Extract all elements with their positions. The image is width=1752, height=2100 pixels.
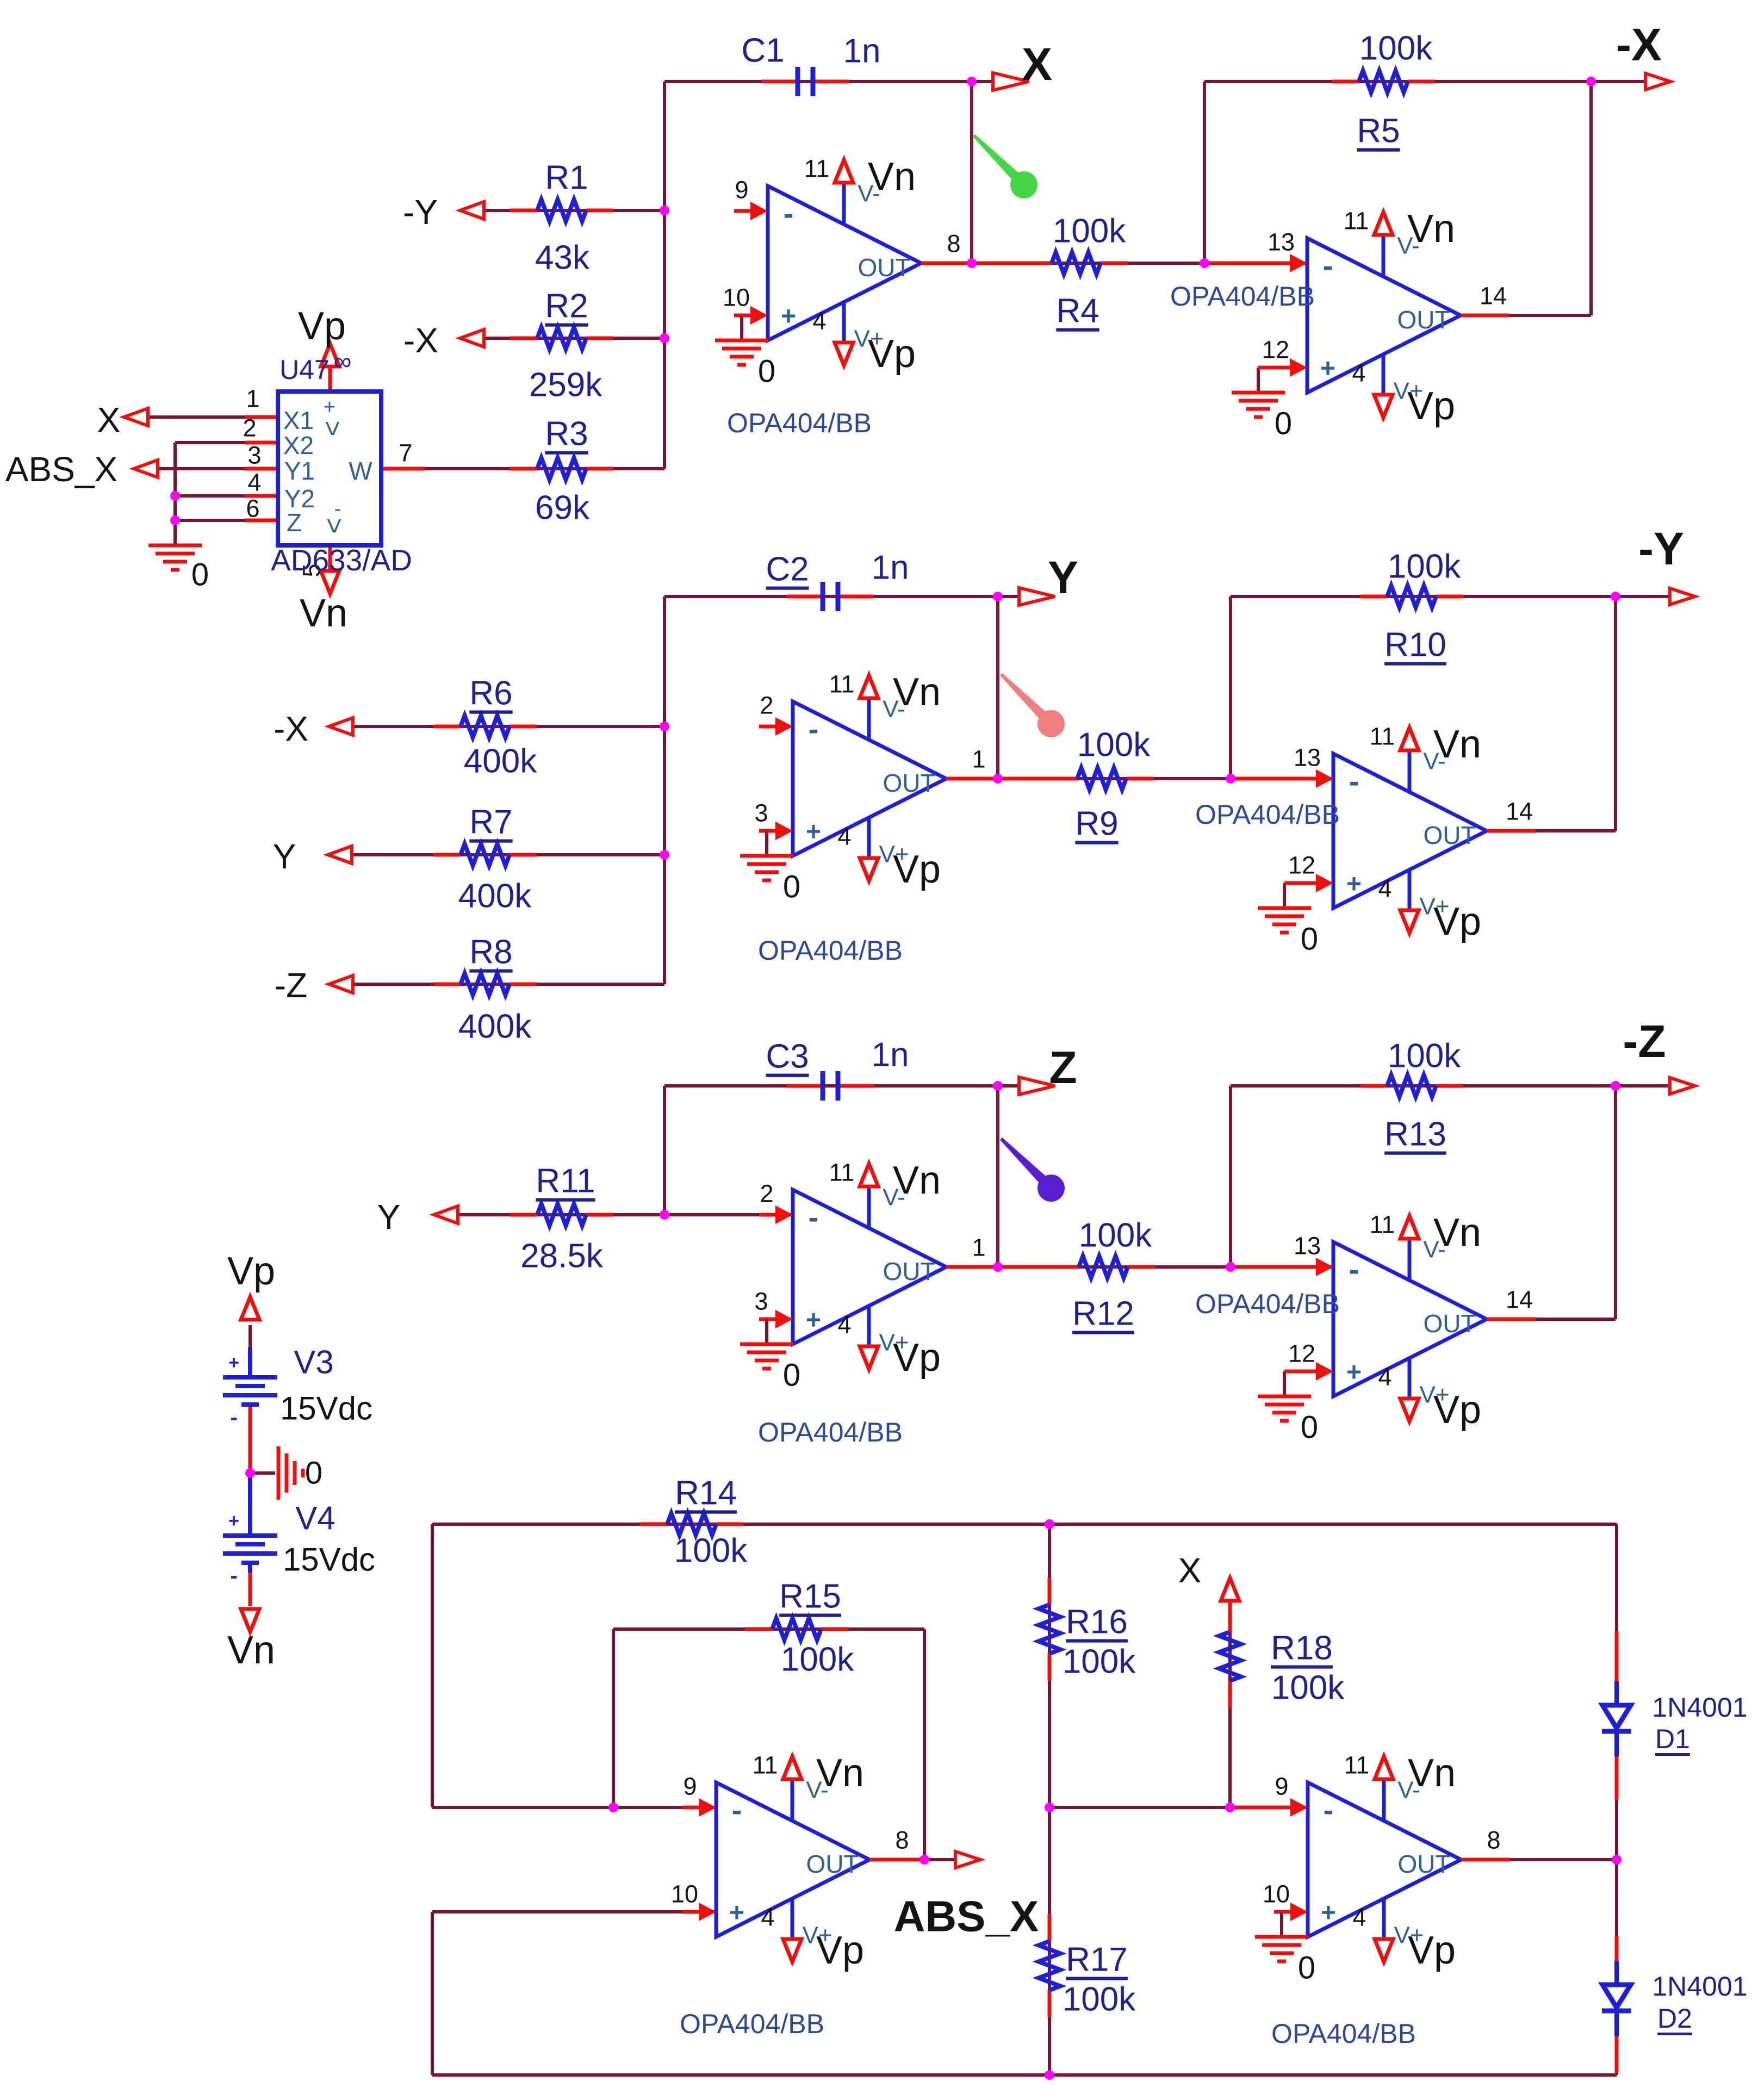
svg-text:15Vdc: 15Vdc: [283, 1542, 375, 1578]
svg-text:V+: V+: [854, 326, 884, 352]
svg-text:R10: R10: [1384, 626, 1446, 664]
svg-text:28.5k: 28.5k: [520, 1238, 604, 1275]
svg-text:-Z: -Z: [1623, 1016, 1666, 1067]
svg-text:-: -: [1349, 764, 1359, 798]
svg-text:Y1: Y1: [284, 457, 315, 485]
svg-text:>: >: [319, 518, 350, 533]
svg-text:>: >: [318, 420, 348, 436]
svg-text:ABS_X: ABS_X: [894, 1892, 1039, 1941]
svg-text:100k: 100k: [1063, 1643, 1136, 1681]
svg-text:12: 12: [1262, 336, 1289, 364]
svg-text:V-: V-: [883, 1184, 905, 1211]
svg-text:OUT: OUT: [883, 769, 935, 797]
svg-text:15Vdc: 15Vdc: [280, 1390, 372, 1427]
svg-text:R16: R16: [1066, 1604, 1128, 1641]
svg-text:3: 3: [247, 442, 261, 469]
svg-text:X1: X1: [283, 406, 314, 434]
svg-text:11: 11: [804, 155, 830, 183]
svg-text:-Z: -Z: [275, 966, 307, 1005]
svg-text:OPA404/BB: OPA404/BB: [1170, 281, 1315, 312]
svg-text:R15: R15: [779, 1578, 841, 1616]
svg-text:259k: 259k: [529, 366, 602, 404]
svg-text:-: -: [809, 1200, 819, 1234]
svg-text:12: 12: [1288, 1340, 1315, 1368]
svg-text:+: +: [1320, 355, 1335, 383]
svg-text:+: +: [729, 1899, 744, 1928]
svg-text:R9: R9: [1075, 805, 1118, 843]
svg-text:V-: V-: [883, 696, 905, 723]
svg-text:9: 9: [735, 176, 748, 204]
svg-text:43k: 43k: [535, 239, 590, 277]
svg-text:4: 4: [1352, 1904, 1366, 1931]
svg-text:100k: 100k: [1388, 548, 1461, 586]
svg-text:100k: 100k: [1079, 1217, 1152, 1254]
svg-text:-: -: [809, 712, 819, 746]
svg-text:11: 11: [829, 670, 855, 698]
svg-text:OPA404/BB: OPA404/BB: [758, 1417, 903, 1447]
svg-text:-X: -X: [1616, 19, 1662, 70]
svg-text:+: +: [1346, 870, 1362, 899]
svg-text:V-: V-: [1423, 1237, 1446, 1263]
svg-text:Y: Y: [1048, 552, 1078, 603]
svg-text:10: 10: [1263, 1880, 1290, 1908]
svg-text:R18: R18: [1271, 1630, 1333, 1667]
svg-text:V+: V+: [1419, 893, 1449, 920]
svg-text:OPA404/BB: OPA404/BB: [680, 2009, 824, 2039]
svg-text:-: -: [784, 196, 794, 231]
svg-text:V+: V+: [1393, 378, 1423, 405]
svg-text:ABS_X: ABS_X: [5, 450, 117, 489]
svg-text:-X: -X: [274, 709, 308, 748]
svg-text:V-: V-: [1423, 748, 1446, 775]
svg-text:R4: R4: [1056, 293, 1099, 330]
svg-text:-: -: [230, 1564, 237, 1588]
svg-text:100k: 100k: [1077, 726, 1151, 764]
svg-text:13: 13: [1294, 1232, 1321, 1260]
svg-text:Y: Y: [377, 1197, 401, 1237]
svg-text:+: +: [228, 1511, 239, 1531]
svg-text:Z: Z: [1049, 1042, 1077, 1093]
svg-text:0: 0: [191, 557, 209, 593]
svg-text:OUT: OUT: [858, 253, 910, 282]
svg-text:V-: V-: [1397, 1777, 1420, 1804]
svg-text:OUT: OUT: [1423, 821, 1476, 849]
svg-text:0: 0: [1298, 1950, 1315, 1986]
svg-text:∞: ∞: [334, 347, 352, 375]
svg-text:OUT: OUT: [1423, 1309, 1476, 1338]
svg-text:R13: R13: [1384, 1116, 1446, 1153]
svg-text:R6: R6: [469, 675, 512, 712]
svg-text:Vp: Vp: [227, 1250, 275, 1293]
svg-text:+: +: [806, 1306, 821, 1335]
svg-text:R1: R1: [545, 159, 588, 197]
svg-text:12: 12: [1288, 852, 1315, 879]
svg-text:0: 0: [1301, 1410, 1318, 1445]
svg-text:8: 8: [1487, 1826, 1500, 1854]
svg-text:C2: C2: [766, 551, 809, 588]
svg-text:-: -: [732, 1793, 742, 1827]
svg-text:OPA404/BB: OPA404/BB: [758, 935, 903, 966]
svg-text:1: 1: [246, 385, 259, 413]
svg-text:+: +: [781, 302, 796, 331]
svg-text:8: 8: [947, 230, 960, 258]
svg-text:C1: C1: [741, 32, 784, 70]
svg-text:R17: R17: [1066, 1941, 1128, 1979]
svg-text:-: -: [230, 1406, 237, 1430]
svg-text:4: 4: [837, 1311, 851, 1339]
svg-text:9: 9: [683, 1773, 697, 1800]
svg-text:13: 13: [1268, 228, 1295, 256]
svg-text:100k: 100k: [674, 1532, 748, 1570]
svg-text:2: 2: [760, 1180, 773, 1208]
svg-text:9: 9: [1275, 1773, 1288, 1800]
svg-text:4: 4: [247, 469, 261, 496]
svg-text:11: 11: [1344, 207, 1369, 235]
svg-text:8: 8: [895, 1826, 909, 1854]
svg-text:0: 0: [305, 1456, 322, 1491]
svg-text:+: +: [806, 818, 821, 847]
svg-text:OPA404/BB: OPA404/BB: [1271, 2018, 1416, 2049]
svg-text:R14: R14: [675, 1475, 737, 1512]
svg-text:100k: 100k: [1271, 1669, 1345, 1707]
svg-text:Vp: Vp: [298, 305, 346, 348]
svg-text:14: 14: [1480, 282, 1507, 310]
svg-text:1N4001: 1N4001: [1652, 1971, 1747, 2002]
svg-text:W: W: [349, 457, 372, 485]
svg-text:V-: V-: [858, 181, 880, 207]
svg-text:100k: 100k: [1388, 1037, 1461, 1075]
svg-text:V+: V+: [1394, 1922, 1424, 1949]
svg-text:-: -: [1324, 1793, 1334, 1827]
svg-text:100k: 100k: [1063, 1981, 1136, 2018]
svg-text:C3: C3: [766, 1038, 809, 1076]
svg-text:4: 4: [1378, 1363, 1391, 1391]
svg-text:V+: V+: [1419, 1382, 1449, 1408]
svg-text:OPA404/BB: OPA404/BB: [1195, 799, 1340, 830]
svg-text:V+: V+: [879, 1329, 909, 1356]
svg-text:69k: 69k: [535, 489, 590, 527]
svg-text:D1: D1: [1655, 1724, 1690, 1754]
svg-text:14: 14: [1506, 1286, 1533, 1314]
svg-text:0: 0: [1301, 922, 1318, 957]
svg-text:400k: 400k: [458, 878, 532, 915]
svg-text:+: +: [324, 396, 336, 419]
svg-text:4: 4: [812, 307, 826, 335]
svg-text:-: -: [1349, 1252, 1359, 1287]
svg-text:100k: 100k: [1053, 213, 1126, 250]
svg-text:V4: V4: [295, 1500, 335, 1537]
svg-text:X: X: [1178, 1551, 1202, 1590]
svg-text:4: 4: [761, 1904, 774, 1931]
svg-text:11: 11: [1344, 1751, 1370, 1779]
svg-text:1n: 1n: [843, 33, 881, 70]
svg-text:1N4001: 1N4001: [1652, 1692, 1747, 1723]
svg-text:1n: 1n: [872, 1036, 909, 1074]
svg-text:V+: V+: [879, 841, 909, 868]
svg-text:13: 13: [1294, 744, 1321, 772]
svg-text:10: 10: [723, 284, 750, 312]
svg-text:R5: R5: [1357, 113, 1400, 150]
svg-text:11: 11: [1370, 723, 1395, 750]
svg-text:R12: R12: [1072, 1295, 1134, 1333]
svg-text:14: 14: [1506, 798, 1533, 825]
svg-text:-Y: -Y: [403, 192, 438, 232]
svg-text:3: 3: [754, 799, 768, 827]
svg-text:Y: Y: [273, 837, 296, 876]
svg-text:OUT: OUT: [883, 1257, 935, 1285]
svg-text:V-: V-: [1397, 233, 1420, 259]
svg-text:1: 1: [972, 745, 985, 773]
svg-text:11: 11: [829, 1159, 855, 1186]
svg-text:R3: R3: [545, 415, 588, 453]
svg-text:0: 0: [783, 869, 800, 905]
svg-text:X2: X2: [283, 431, 314, 459]
svg-text:OPA404/BB: OPA404/BB: [727, 408, 872, 438]
svg-text:400k: 400k: [464, 743, 537, 780]
svg-text:11: 11: [1370, 1211, 1395, 1239]
svg-text:-X: -X: [403, 321, 438, 360]
svg-text:+: +: [228, 1352, 239, 1373]
svg-text:100k: 100k: [1359, 30, 1433, 67]
svg-text:-: -: [1323, 248, 1333, 283]
svg-text:OUT: OUT: [806, 1850, 859, 1878]
svg-text:V+: V+: [802, 1922, 832, 1949]
svg-text:Vn: Vn: [227, 1629, 275, 1672]
svg-text:V-: V-: [806, 1777, 829, 1804]
svg-text:D2: D2: [1657, 2003, 1692, 2034]
svg-text:100k: 100k: [781, 1641, 854, 1679]
svg-text:R8: R8: [469, 934, 512, 971]
svg-text:400k: 400k: [458, 1008, 532, 1046]
svg-text:+: +: [1321, 1899, 1336, 1928]
svg-text:7: 7: [399, 439, 412, 467]
svg-text:4: 4: [1352, 359, 1365, 387]
svg-text:R2: R2: [545, 288, 588, 325]
svg-text:0: 0: [758, 354, 775, 389]
svg-text:Vn: Vn: [300, 592, 347, 635]
svg-text:OPA404/BB: OPA404/BB: [1195, 1289, 1340, 1319]
svg-text:-Y: -Y: [1638, 523, 1684, 574]
svg-text:1: 1: [972, 1234, 985, 1262]
svg-text:OUT: OUT: [1397, 1850, 1450, 1878]
svg-text:R7: R7: [469, 804, 512, 841]
svg-text:11: 11: [753, 1751, 778, 1779]
svg-text:Z: Z: [287, 508, 302, 537]
svg-text:6: 6: [246, 495, 259, 523]
svg-text:V3: V3: [294, 1344, 333, 1381]
svg-text:AD633/AD: AD633/AD: [271, 543, 412, 577]
svg-text:U47: U47: [279, 355, 330, 385]
svg-text:1n: 1n: [872, 549, 909, 587]
svg-text:-: -: [334, 498, 341, 520]
svg-text:0: 0: [1275, 406, 1292, 442]
svg-text:4: 4: [1378, 875, 1391, 903]
svg-text:3: 3: [754, 1288, 768, 1315]
svg-text:4: 4: [837, 823, 851, 850]
svg-text:R11: R11: [536, 1163, 595, 1200]
svg-text:OUT: OUT: [1397, 306, 1450, 334]
svg-text:2: 2: [243, 414, 256, 442]
svg-text:+: +: [1346, 1358, 1362, 1387]
svg-text:2: 2: [760, 692, 773, 719]
svg-text:X: X: [97, 400, 121, 439]
svg-text:0: 0: [783, 1358, 800, 1393]
svg-text:10: 10: [671, 1880, 698, 1908]
svg-text:X: X: [1022, 39, 1052, 90]
